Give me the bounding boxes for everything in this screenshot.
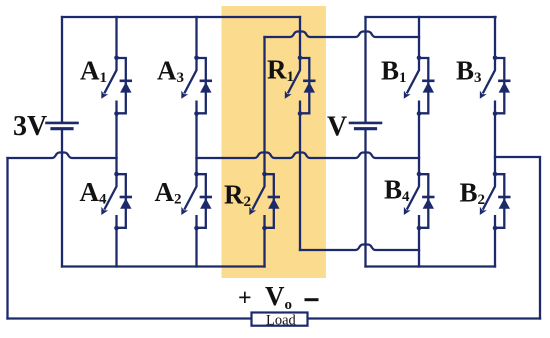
switch A3 [181,56,212,116]
wire bottom rail right bridge [366,265,496,267]
wire B1/B4 branch [418,17,420,58]
svg-text:B2: B2 [460,177,486,208]
switch R1 [285,56,316,116]
svg-text:B1: B1 [381,56,407,87]
svg-text:Vo: Vo [265,281,292,313]
switch R2 [249,172,280,231]
wire R1 lower rail to B1/B4 branch [300,245,419,251]
svg-text:B4: B4 [384,174,410,205]
wire mid rail left (battery to A1/A4) [8,153,117,159]
svg-text:+: + [238,286,252,312]
switch A4 [101,172,132,231]
svg-text:A2: A2 [155,177,182,208]
wire mid rail right (A3/A2 to B1/B4) [197,153,420,159]
svg-text:B3: B3 [456,56,482,87]
wire top rail left bridge [62,16,300,18]
wire left frame vertical [6,158,8,319]
wire 3V battery branch lower [61,130,63,267]
svg-text:A1: A1 [80,56,107,87]
load box [252,313,308,326]
wire V battery branch lower [364,130,366,267]
svg-text:V: V [327,112,347,143]
battery 3V [45,123,79,129]
wire right frame (to load) [495,157,540,319]
svg-text:A4: A4 [80,177,108,208]
wire V battery branch upper [364,17,366,122]
switch A2 [181,172,212,231]
wire top rail right bridge [366,16,496,18]
switch B4 [404,172,435,231]
svg-text:A3: A3 [157,56,184,87]
wire R1 branch [299,17,301,58]
wire bottom load line right [308,317,541,319]
highlight band (yellow) [222,6,326,278]
battery V [349,123,383,129]
switch B1 [404,56,435,116]
wire A3/A2 branch [195,17,197,58]
switch A1 [101,56,132,116]
wire R2 branch [263,37,265,174]
svg-text:Load: Load [266,313,297,329]
label output - polarity [305,298,319,301]
svg-text:3V: 3V [13,111,47,142]
wire rail R1 top to B1 branch [265,32,420,38]
wire bottom load line left [8,317,252,319]
switch B2 [480,172,511,231]
switch B3 [480,56,511,116]
wire bottom rail left bridge [62,265,265,267]
wire A1/A4 branch [115,17,117,58]
wire 3V battery branch upper [61,17,63,122]
wire B3/B2 branch [494,17,496,58]
